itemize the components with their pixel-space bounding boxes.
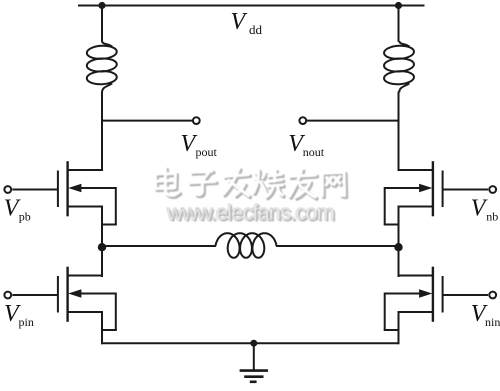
svg-text:V: V: [231, 9, 248, 35]
svg-text:pb: pb: [19, 209, 31, 223]
svg-text:nout: nout: [303, 145, 325, 159]
svg-text:www.elecfans.com: www.elecfans.com: [166, 200, 334, 225]
svg-text:pout: pout: [196, 145, 218, 159]
svg-text:V: V: [471, 195, 488, 221]
svg-text:dd: dd: [249, 22, 263, 37]
svg-text:nin: nin: [485, 315, 500, 329]
svg-text:pin: pin: [19, 315, 34, 329]
svg-text:nb: nb: [486, 209, 498, 223]
